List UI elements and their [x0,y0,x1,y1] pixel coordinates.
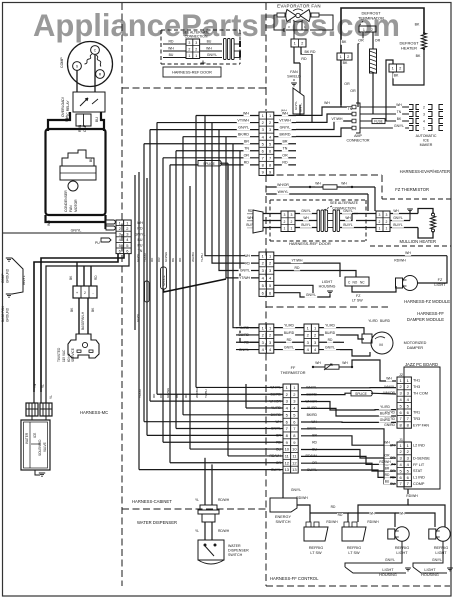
svg-text:BU: BU [89,157,93,162]
svg-text:L2 IND: L2 IND [413,444,425,448]
wire heater to connector 1-2 [393,49,424,85]
svg-text:LIGHT: LIGHT [434,283,446,287]
svg-text:13: 13 [292,467,297,472]
svg-text:BK: BK [394,74,399,78]
svg-text:OR: OR [350,89,356,93]
svg-text:HARNESS-FF CONTROL: HARNESS-FF CONTROL [270,576,319,581]
svg-text:SPLICE: SPLICE [162,275,166,286]
svg-text:YL: YL [195,529,199,533]
inline component boxes center [145,281,150,302]
wires terminator [362,32,364,40]
label box harness-ref door [163,67,221,77]
svg-text:GN/YL: GN/YL [71,229,82,233]
svg-text:D-SENSE: D-SENSE [413,456,430,460]
svg-text:MAKER: MAKER [420,143,433,147]
svg-text:RD/WH: RD/WH [326,520,338,524]
svg-text:TR3: TR3 [413,417,420,421]
svg-text:ICE: ICE [423,139,430,143]
wire WH/OR thermistor [266,186,375,188]
svg-text:FAN: FAN [69,205,73,212]
fz light switch box [345,277,369,286]
svg-text:VT/WH: VT/WH [237,118,249,122]
svg-text:BK: BK [343,61,348,65]
wires into alt connection from left [247,213,253,215]
svg-text:JAZZ PC BOARD: JAZZ PC BOARD [405,362,438,367]
splice ff [351,391,373,396]
svg-text:2: 2 [423,105,425,109]
svg-text:TH1: TH1 [413,379,420,383]
wires to service cord [76,262,78,286]
svg-text:GROUND: GROUND [6,307,10,322]
svg-text:3: 3 [379,213,381,217]
svg-text:GN/RD: GN/RD [384,423,395,427]
svg-text:BU/RD: BU/RD [325,331,336,335]
svg-text:RD/WH: RD/WH [394,258,406,262]
svg-text:SWITCH: SWITCH [276,520,291,524]
connector fz module 6-pin [259,252,274,296]
svg-text:GN/YL: GN/YL [284,345,294,349]
svg-text:GN/YL: GN/YL [294,101,298,110]
svg-text:L1 IND: L1 IND [413,476,425,480]
svg-text:COMP: COMP [1,273,5,283]
svg-text:3: 3 [386,213,388,217]
svg-text:GN/YL: GN/YL [394,124,404,128]
svg-text:GN/YL: GN/YL [207,53,217,57]
svg-text:BU: BU [385,479,390,483]
wire gn/yl fz [274,293,330,297]
svg-text:BU/YL: BU/YL [301,223,310,227]
motor shaft circle [68,181,78,191]
svg-text:BK: BK [342,40,347,44]
svg-text:RD/WH: RD/WH [367,520,379,524]
svg-text:BU/YL: BU/YL [343,223,352,227]
svg-text:WH: WH [206,47,212,51]
wire from heater connector up [386,60,393,105]
svg-text:WATER DISPENSER: WATER DISPENSER [137,520,177,525]
wires between damper connectors [274,327,304,329]
svg-text:DAMPER MODULE: DAMPER MODULE [407,317,444,322]
service cord 3-pin connector [73,286,97,298]
svg-text:CONDENSER: CONDENSER [64,190,68,212]
svg-text:WH: WH [282,111,288,115]
dashed divider center vertical [265,3,267,88]
svg-text:GN/YL: GN/YL [325,345,335,349]
wires from defrost down to amp [299,105,301,115]
wires 9-pin to amp connector region [296,107,352,115]
svg-text:2: 2 [379,220,381,224]
svg-text:AUTOMATIC: AUTOMATIC [416,134,437,138]
vertical bundle group B from top [205,115,259,255]
ground mullion [409,211,411,221]
refrig light switch 1 [306,522,311,527]
connector evap fan 1-2 [291,39,306,47]
wedge terminals into MC connector [106,220,116,224]
svg-text:SPLICE: SPLICE [355,392,368,396]
defrost heater resistor [414,22,421,27]
wires to dispenser switch [204,522,206,540]
svg-text:OR: OR [244,154,250,158]
svg-text:WH: WH [341,182,347,186]
wires connectors to solenoid [31,416,33,420]
svg-text:WH: WH [384,441,390,445]
wires mid connector to rings [295,213,317,215]
connector damper left 4-pin [259,324,274,353]
svg-text:HARNESS-FF: HARNESS-FF [417,311,444,316]
svg-text:RD: RD [331,505,336,509]
fz light bulb [396,278,403,288]
damper connector box [362,334,372,343]
svg-text:GN/YL: GN/YL [136,253,140,262]
dashed mullion section rules [382,198,451,200]
svg-text:TR1: TR1 [413,411,420,415]
automatic ice maker pins [409,105,413,110]
wires thermistor to J2 [312,367,314,375]
svg-text:13: 13 [285,467,290,472]
svg-text:REFRIG: REFRIG [347,546,361,550]
svg-text:WH: WH [243,111,249,115]
svg-text:SWITCH: SWITCH [228,553,243,557]
svg-text:BU/RD: BU/RD [380,412,391,416]
svg-text:OR: OR [358,39,364,43]
svg-text:GN/YL: GN/YL [22,275,26,285]
twisted pair to plug [78,298,80,334]
svg-text:HARNESS-REF DOOR: HARNESS-REF DOOR [172,71,212,75]
svg-text:2: 2 [291,220,293,224]
dashed rule harness-fz module [266,306,388,308]
water/ice solenoid valve box [21,420,50,470]
svg-text:RD: RD [169,40,174,44]
compressor winding C-S [85,54,93,64]
svg-text:HARNESS-REF DOOR: HARNESS-REF DOOR [289,241,331,246]
svg-text:TH3: TH3 [413,385,420,389]
svg-text:BU/YL: BU/YL [393,223,402,227]
svg-text:HARNESS-EVAP/HEATER: HARNESS-EVAP/HEATER [400,169,450,174]
cable clamp wedge [253,210,263,233]
amp connector bracket [356,103,360,133]
svg-text:HOUSING: HOUSING [379,573,397,577]
svg-text:RD/WH: RD/WH [218,498,230,502]
svg-text:REFRIG: REFRIG [434,546,448,550]
svg-text:BK/RD: BK/RD [280,132,291,136]
compressor circle [68,42,113,87]
svg-text:12: 12 [292,460,297,465]
svg-text:YL: YL [195,498,199,502]
svg-text:HARNESS-CABINET: HARNESS-CABINET [132,499,172,504]
svg-text:FUSE: FUSE [374,120,383,124]
svg-text:3: 3 [195,41,197,45]
wire splice diagonal to fz row4 [164,279,227,292]
svg-text:GN/YL: GN/YL [393,216,403,220]
svg-text:ICE: ICE [33,433,37,438]
svg-text:STAT: STAT [413,469,423,473]
condenser fan motor symbol [62,150,94,166]
svg-text:HOUSING: HOUSING [319,285,336,289]
svg-text:WH: WH [324,101,330,105]
svg-text:WH/YL: WH/YL [278,190,289,194]
svg-text:GN/YL: GN/YL [343,209,353,213]
svg-text:TH COM: TH COM [413,391,428,395]
svg-text:1: 1 [386,227,388,231]
wires 12-pin right to J1 [301,436,396,445]
svg-text:WH/BU: WH/BU [195,388,199,398]
svg-text:10: 10 [292,447,297,452]
svg-text:BU: BU [95,117,99,122]
wire rd/wh bus [297,505,310,522]
svg-text:FF LIT: FF LIT [413,463,425,467]
svg-text:GN/WH: GN/WH [164,252,168,262]
svg-text:DAMPER: DAMPER [407,346,424,350]
svg-text:WH: WH [405,251,411,255]
svg-text:RD/WH: RD/WH [296,496,308,500]
svg-text:RD: RD [328,338,333,342]
svg-text:WATER: WATER [228,544,241,548]
svg-text:WH: WH [315,361,321,365]
svg-text:BU: BU [138,238,143,242]
svg-text:WH: WH [399,512,405,516]
svg-text:THERMISTOR: THERMISTOR [280,371,305,375]
defrost terminator body [359,26,376,32]
wire GN/YL from left border to connector [3,232,116,234]
compressor pin C [91,46,100,55]
label harness-cabinet right rule [266,585,450,587]
svg-text:VT/WH: VT/WH [279,118,291,122]
svg-text:WH: WH [303,216,309,220]
svg-text:115 VAC: 115 VAC [62,349,66,362]
svg-text:GROUND: GROUND [6,268,10,283]
connector alt 3-pin mid [281,211,295,232]
wire rd/wh from J1 down [358,489,408,522]
svg-text:HARNESS-FZ MODULE: HARNESS-FZ MODULE [404,299,450,304]
svg-text:NO: NO [353,281,358,285]
solenoid ground [35,470,40,475]
svg-text:OR: OR [344,82,350,86]
dashed rule harness-evap/heater [266,174,382,176]
svg-text:HOUSING: HOUSING [421,573,439,577]
svg-text:LIGHT: LIGHT [435,551,447,555]
svg-text:RD: RD [137,227,143,231]
compressor pin R [96,70,105,79]
wires damper left from bundle [183,327,236,329]
svg-text:3: 3 [284,213,286,217]
svg-text:BR: BR [385,466,390,470]
svg-text:CONNECTION: CONNECTION [185,35,208,39]
svg-text:GN/YL: GN/YL [240,269,250,273]
inline connector rings ref door [224,39,227,60]
svg-text:BU: BU [169,53,174,57]
wires below fan connector [294,47,300,63]
svg-text:WH: WH [168,47,174,51]
svg-text:RD: RD [301,57,307,61]
svg-text:BR: BR [244,140,249,144]
svg-text:J2: J2 [399,373,403,377]
jazz pc board outline [404,367,440,489]
svg-text:LT SW: LT SW [352,299,363,303]
svg-text:YL/RD: YL/RD [380,405,390,409]
dashed machine compartment top [122,87,266,89]
svg-text:TN: TN [283,147,288,151]
svg-text:YL/RD: YL/RD [368,319,378,323]
svg-text:1: 1 [291,227,293,231]
wires ref-door connector left [163,43,186,45]
svg-text:OR: OR [375,39,381,43]
power cord plug 115VAC [68,334,99,358]
svg-text:RD: RD [338,513,343,517]
svg-text:DISPENSER: DISPENSER [228,549,249,553]
svg-text:GN/YL: GN/YL [280,125,291,129]
svg-text:2: 2 [195,47,197,51]
svg-text:TN: TN [397,110,402,114]
wire grounds [12,258,23,294]
defrost loop rectangle [341,8,424,53]
fan wires to connector [274,15,284,30]
svg-text:WH/OR: WH/OR [277,183,289,187]
svg-text:GN/YL: GN/YL [306,293,316,297]
svg-text:BK/RD: BK/RD [238,132,249,136]
wires bottom of 12-pin to energy switch [282,473,284,498]
refrig light 1 [388,529,395,539]
svg-text:FAN: FAN [290,70,298,74]
svg-text:2: 2 [84,291,86,295]
wire BU motor box to connector [106,215,108,228]
svg-text:REFRIG: REFRIG [309,546,323,550]
dashed divider machine compartment vertical [121,3,123,586]
svg-text:EVAPORATOR FAN: EVAPORATOR FAN [277,4,321,9]
base pan ground symbol [6,293,12,295]
svg-text:WH/BU: WH/BU [191,252,195,262]
svg-text:WH: WH [369,512,375,516]
svg-text:3: 3 [423,112,425,116]
gn/yl grounds lights [384,558,396,563]
connector evap 9-pin [259,112,274,175]
wires MC connector bottom staircase [34,254,118,392]
wires to mullion heater [390,213,418,215]
wires ref-door connector right [200,43,222,45]
comp ground symbol [6,257,12,259]
svg-text:BK: BK [415,23,420,27]
svg-text:RD: RD [312,440,317,444]
svg-text:1: 1 [284,227,286,231]
svg-text:3: 3 [291,213,293,217]
svg-text:BK/RD: BK/RD [307,413,318,417]
svg-text:3: 3 [188,41,190,45]
refrig light switch 2 [344,522,349,527]
svg-text:PU: PU [138,244,143,248]
svg-text:BK: BK [171,258,175,262]
dashed box see alternate connection mid [270,199,366,201]
svg-text:NC: NC [360,281,365,285]
svg-text:4: 4 [423,119,425,123]
svg-text:1: 1 [379,227,381,231]
fan terminal blocks [277,13,285,17]
svg-text:OR: OR [385,453,391,457]
wires 9-pin fanout left [196,115,259,117]
svg-text:VT/WH: VT/WH [332,117,343,121]
svg-text:BK: BK [416,54,421,58]
svg-text:WH: WH [393,209,399,213]
svg-text:GN/YL: GN/YL [238,125,249,129]
svg-text:GN/YL: GN/YL [301,209,311,213]
svg-text:YL/RD: YL/RD [284,323,294,327]
dashed box see-alternate-connection ref door [160,30,162,64]
energy switch [270,498,297,512]
condenser fan motor box [46,129,106,215]
svg-text:2: 2 [188,47,190,51]
svg-text:TWISTED: TWISTED [57,347,61,362]
water dispenser inline connector [200,505,217,510]
svg-text:YT/WH: YT/WH [292,258,303,262]
svg-text:WATER: WATER [25,432,29,444]
connector MC 6-pin [116,220,131,254]
svg-text:FZ: FZ [438,278,443,282]
svg-text:TN: TN [33,383,37,388]
inline rings mid [317,210,320,232]
svg-text:LT SW: LT SW [348,551,360,555]
svg-text:ENERGY: ENERGY [275,515,292,519]
svg-text:LIGHT: LIGHT [424,568,436,572]
svg-text:WH: WH [244,254,250,258]
svg-text:EYP FAN: EYP FAN [413,423,429,427]
fuse [372,119,385,124]
svg-text:GN/YL: GN/YL [432,558,442,562]
svg-text:RD: RD [245,261,250,265]
wires to damper motor [340,328,364,334]
svg-text:MOTOR: MOTOR [74,199,78,212]
svg-text:BU: BU [207,40,212,44]
svg-text:RD: RD [385,473,390,477]
svg-text:10: 10 [285,447,290,452]
svg-text:RD/WH: RD/WH [218,529,230,533]
svg-text:1: 1 [195,54,197,58]
wire WH/YL [266,193,368,195]
svg-text:LIGHT: LIGHT [382,568,394,572]
svg-text:BASEPAN-H: BASEPAN-H [81,311,85,330]
svg-text:1: 1 [423,126,425,130]
dashed rule harness-cabinet [122,508,266,510]
connector damper right 4-pin [304,324,319,353]
svg-text:WH: WH [247,216,253,220]
wires rings to right connector [340,213,376,215]
svg-text:RD/WH: RD/WH [406,494,418,498]
water dispenser switch [198,540,224,560]
svg-text:TN: TN [138,249,143,253]
connector ref-door 3-pin [186,39,200,59]
svg-text:WH: WH [342,361,348,365]
svg-text:WH: WH [345,216,351,220]
svg-text:RD: RD [94,275,98,280]
svg-text:AMP: AMP [354,134,362,138]
connector mullion 3-pin [376,211,390,232]
wires fz right [274,255,447,257]
svg-text:2: 2 [386,220,388,224]
ground tick ref door [202,61,204,64]
wires switch to bulb [352,286,396,292]
svg-text:12: 12 [285,460,290,465]
compressor winding C-R [96,55,101,67]
connector defrost heater 1-2 [389,64,404,72]
svg-text:WH: WH [137,221,143,225]
ff thermistor element [312,366,314,368]
svg-text:WH: WH [315,182,321,186]
svg-text:OR: OR [282,154,288,158]
svg-text:COMP: COMP [60,57,64,68]
evaporator fan symbol [286,10,296,22]
svg-text:BK RD: BK RD [305,50,316,54]
svg-text:YL: YL [49,395,53,399]
svg-text:2: 2 [371,28,373,32]
svg-text:WH: WH [386,377,392,381]
wires 12-pin right to J2 [301,387,396,389]
svg-text:J1: J1 [399,438,403,442]
